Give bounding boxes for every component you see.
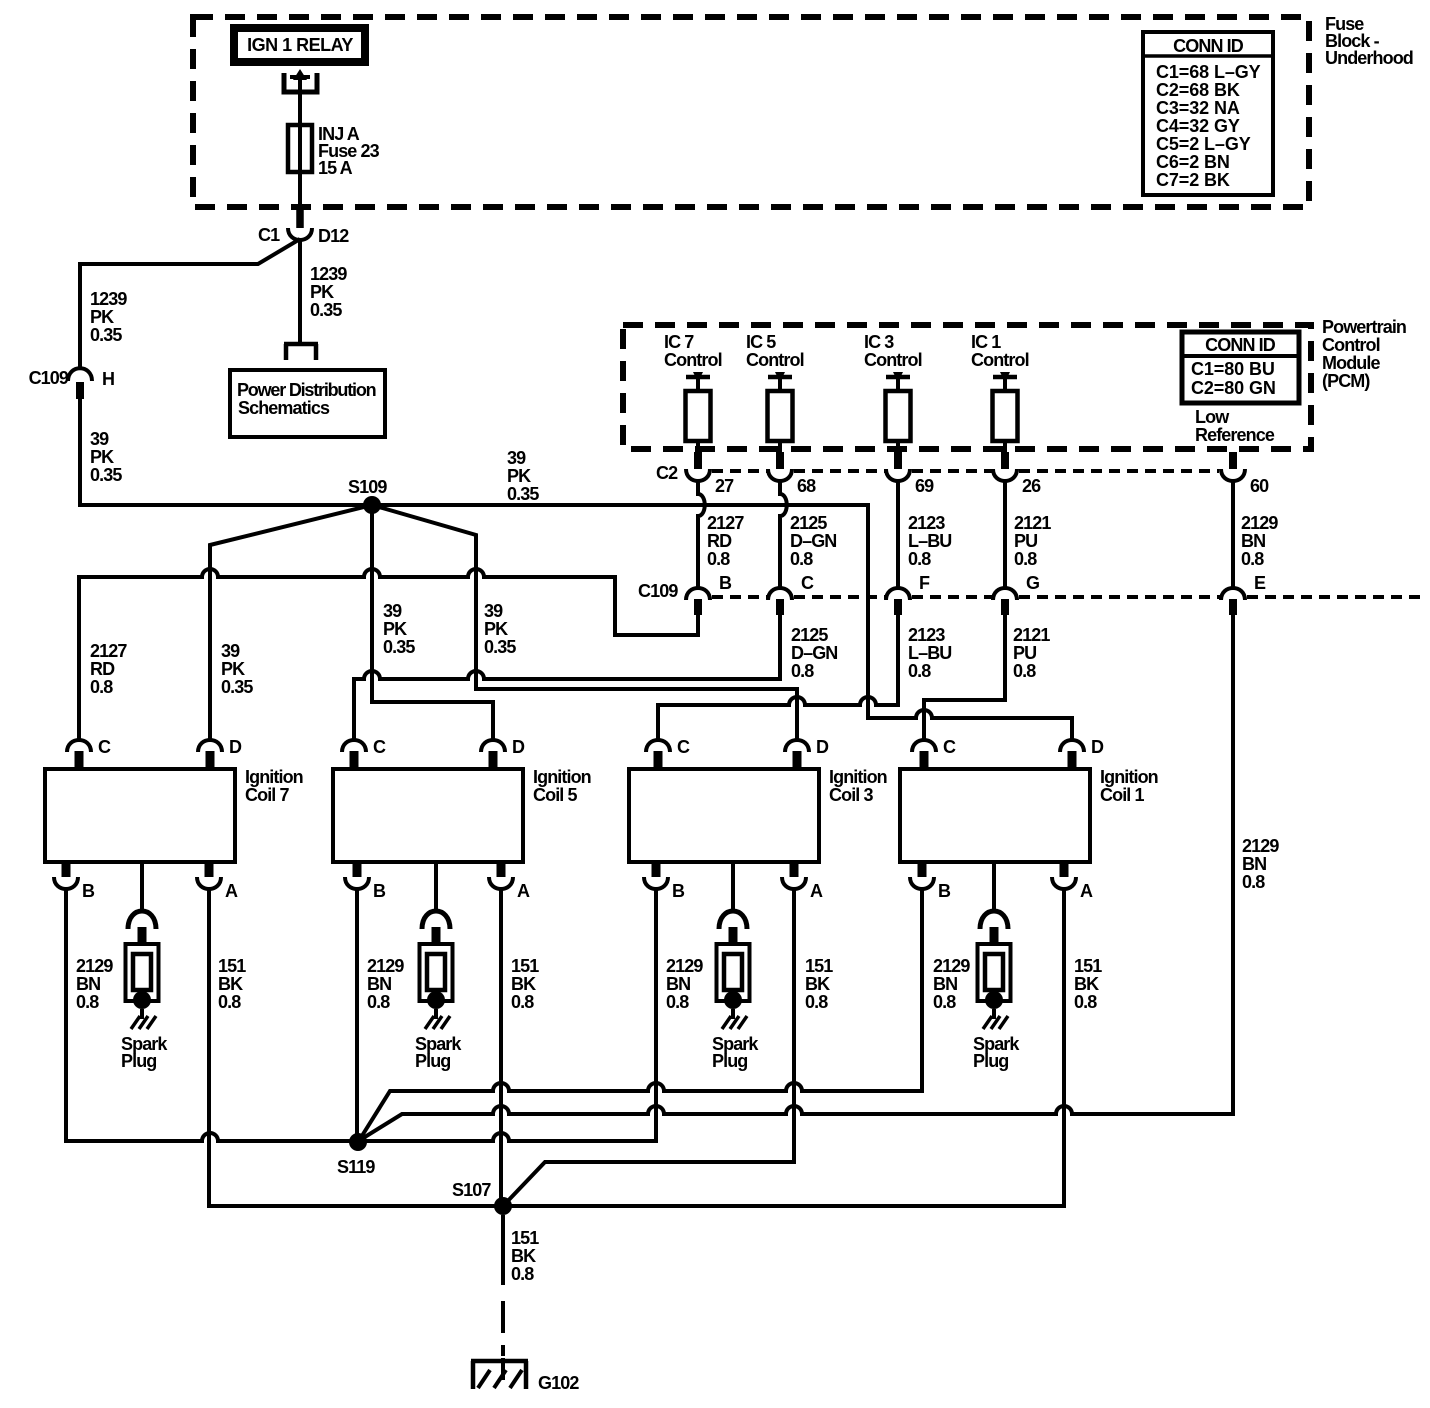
svg-text:B: B (672, 881, 685, 901)
svg-text:151: 151 (511, 956, 539, 976)
svg-text:IGN 1 RELAY: IGN 1 RELAY (247, 35, 353, 55)
powertrain control module dashed box (623, 325, 1311, 449)
coil 7 pin A (197, 862, 238, 901)
connector C1 D12 (258, 208, 349, 246)
wire 39 PK S109 diagonal to coil 3 pin D (372, 505, 797, 740)
coil 7 pin D (198, 737, 242, 769)
svg-text:Ignition: Ignition (245, 767, 303, 787)
wire 2129 BN C2-60 to C109-E (1233, 480, 1278, 589)
svg-text:PK: PK (310, 282, 334, 302)
svg-text:PU: PU (1014, 531, 1037, 551)
svg-text:39: 39 (484, 601, 503, 621)
svg-text:Module: Module (1322, 353, 1380, 373)
svg-text:A: A (517, 881, 530, 901)
connector C109 pin B (686, 573, 732, 615)
coil 5 pin B (345, 862, 386, 901)
svg-text:2129: 2129 (1241, 513, 1278, 533)
svg-text:Coil 1: Coil 1 (1100, 785, 1144, 805)
svg-text:0.8: 0.8 (90, 677, 113, 697)
svg-text:Control: Control (864, 350, 922, 370)
spark plug of coil 1 (973, 862, 1020, 1071)
svg-text:BN: BN (933, 974, 957, 994)
svg-text:S107: S107 (452, 1180, 491, 1200)
svg-text:PK: PK (383, 619, 407, 639)
svg-text:BN: BN (1241, 531, 1265, 551)
svg-text:RD: RD (90, 659, 115, 679)
svg-text:BK: BK (218, 974, 243, 994)
svg-text:2121: 2121 (1014, 513, 1051, 533)
svg-text:0.8: 0.8 (1013, 661, 1036, 681)
wire 2129 BN coil 1 pin B to S119 (360, 887, 922, 1139)
svg-text:0.35: 0.35 (90, 325, 122, 345)
svg-text:Coil 5: Coil 5 (533, 785, 577, 805)
conn id table fuse block (1143, 32, 1273, 195)
connector C109 pin H (29, 368, 115, 399)
svg-text:1239: 1239 (310, 264, 347, 284)
wire fuse to connector C1 (298, 172, 302, 209)
svg-text:CONN ID: CONN ID (1173, 36, 1244, 56)
svg-text:60: 60 (1250, 476, 1269, 496)
svg-text:2129: 2129 (1242, 836, 1279, 856)
svg-text:0.8: 0.8 (367, 992, 390, 1012)
svg-text:15 A: 15 A (318, 158, 353, 178)
svg-text:G102: G102 (538, 1373, 579, 1393)
svg-text:C: C (801, 573, 814, 593)
svg-text:0.35: 0.35 (507, 484, 539, 504)
svg-text:Reference: Reference (1195, 425, 1275, 445)
svg-text:A: A (225, 881, 238, 901)
svg-text:D: D (512, 737, 525, 757)
label Powertrain Control Module (PCM) (1322, 317, 1406, 391)
svg-text:0.8: 0.8 (790, 549, 813, 569)
wire 39 PK S109 right to coil 1 pin D (372, 505, 1072, 740)
splice S119 (337, 1133, 375, 1177)
svg-text:Schematics: Schematics (238, 398, 330, 418)
coil 5 pin D (481, 737, 525, 769)
svg-text:2125: 2125 (791, 625, 828, 645)
svg-text:B: B (938, 881, 951, 901)
svg-text:BN: BN (76, 974, 100, 994)
svg-text:C: C (373, 737, 386, 757)
wire 1239 PK C1 to power distribution (300, 239, 347, 344)
svg-text:Underhood: Underhood (1325, 48, 1413, 68)
svg-text:PK: PK (484, 619, 508, 639)
svg-text:BK: BK (511, 974, 536, 994)
spark plug of coil 7 (121, 862, 168, 1071)
connector C2 pin 69 (886, 452, 934, 496)
conn id table PCM (1182, 332, 1299, 403)
svg-text:2125: 2125 (790, 513, 827, 533)
wire 2123 L-BU C109-F to coil 3 pin C (658, 615, 951, 740)
svg-text:0.35: 0.35 (90, 465, 122, 485)
connector C2 pin 68 (768, 452, 816, 496)
svg-text:BK: BK (1074, 974, 1099, 994)
wire 39 PK S109 down to coil 5 pin D (372, 505, 493, 740)
label C2 (656, 463, 678, 483)
coil 3 pin C (646, 737, 690, 769)
svg-text:151: 151 (1074, 956, 1102, 976)
svg-text:151: 151 (218, 956, 246, 976)
coil 7 pin C (67, 737, 111, 769)
connector bracket below relay with up arrow (284, 69, 317, 92)
svg-text:Coil 7: Coil 7 (245, 785, 289, 805)
svg-text:D12: D12 (318, 226, 349, 246)
svg-text:Plug: Plug (973, 1051, 1008, 1071)
splice S107 (452, 1180, 512, 1215)
wire 2127 RD C2-27 to C109-B (698, 480, 744, 589)
fuse block underhood dashed box (193, 17, 1309, 207)
svg-text:C7=2 BK: C7=2 BK (1156, 170, 1230, 190)
svg-text:0.8: 0.8 (666, 992, 689, 1012)
driver IC1 control output inside PCM (971, 332, 1029, 452)
svg-text:0.8: 0.8 (805, 992, 828, 1012)
svg-text:2127: 2127 (707, 513, 744, 533)
svg-text:C: C (943, 737, 956, 757)
connector row C2 dashed line (712, 469, 1219, 473)
svg-text:0.8: 0.8 (1242, 872, 1265, 892)
svg-text:0.35: 0.35 (484, 637, 516, 657)
svg-text:0.8: 0.8 (1074, 992, 1097, 1012)
svg-text:CONN ID: CONN ID (1205, 335, 1276, 355)
svg-text:0.8: 0.8 (511, 992, 534, 1012)
svg-text:0.8: 0.8 (76, 992, 99, 1012)
svg-text:D–GN: D–GN (790, 531, 836, 551)
svg-text:0.35: 0.35 (383, 637, 415, 657)
svg-text:B: B (373, 881, 386, 901)
connector C109 pin F (886, 573, 930, 615)
wire 2123 L-BU C2-69 to C109-F (898, 480, 951, 589)
wire 2125 D-GN C2-68 to C109-C (780, 480, 836, 589)
coil ground and low-reference wire labels (76, 956, 1102, 1012)
connector C2 pin 27 (686, 452, 734, 496)
wire 2129 BN coil 5 pin B to S119 (355, 887, 359, 1142)
svg-text:D: D (229, 737, 242, 757)
svg-text:PK: PK (90, 307, 114, 327)
svg-text:2129: 2129 (666, 956, 703, 976)
svg-text:A: A (810, 881, 823, 901)
svg-text:C2=80 GN: C2=80 GN (1191, 378, 1276, 398)
driver IC5 control output inside PCM (746, 332, 804, 452)
svg-text:C109: C109 (29, 368, 69, 388)
svg-text:Powertrain: Powertrain (1322, 317, 1406, 337)
svg-text:C6=2 BN: C6=2 BN (1156, 152, 1230, 172)
svg-text:PU: PU (1013, 643, 1036, 663)
svg-text:0.8: 0.8 (933, 992, 956, 1012)
svg-text:0.35: 0.35 (310, 300, 342, 320)
svg-text:0.8: 0.8 (511, 1264, 534, 1284)
svg-text:BK: BK (805, 974, 830, 994)
svg-text:IC 5: IC 5 (746, 332, 776, 352)
svg-text:39: 39 (90, 429, 109, 449)
svg-text:S109: S109 (348, 477, 387, 497)
svg-text:27: 27 (715, 476, 734, 496)
svg-text:0.8: 0.8 (1241, 549, 1264, 569)
svg-text:Plug: Plug (712, 1051, 747, 1071)
coil 7 pin B (54, 862, 95, 901)
svg-text:IC 1: IC 1 (971, 332, 1001, 352)
svg-text:0.35: 0.35 (221, 677, 253, 697)
relay K1 IGN 1 RELAY (234, 28, 365, 62)
splice S109 (348, 477, 387, 514)
svg-text:C109: C109 (638, 581, 678, 601)
svg-text:Plug: Plug (121, 1051, 156, 1071)
svg-text:Control: Control (971, 350, 1029, 370)
svg-text:2123: 2123 (908, 513, 945, 533)
wire 39 PK S109 diagonal to coil 7 pin D (210, 505, 372, 740)
wire 2121 PU C109-G to coil 1 pin C (924, 615, 1050, 740)
svg-text:0.8: 0.8 (707, 549, 730, 569)
coil 1 pin C (912, 737, 956, 769)
svg-text:68: 68 (797, 476, 816, 496)
label Low Reference (1195, 407, 1275, 445)
ignition coil 7 box (45, 767, 303, 862)
coil 3 pin B (644, 862, 685, 901)
coil 1 pin A (1052, 862, 1093, 901)
svg-text:C1=80 BU: C1=80 BU (1191, 359, 1275, 379)
svg-text:L–BU: L–BU (908, 531, 951, 551)
fuse F23 INJ A 15 A (288, 124, 380, 178)
svg-text:PK: PK (507, 466, 531, 486)
svg-text:C2: C2 (656, 463, 678, 483)
svg-text:Control: Control (1322, 335, 1380, 355)
svg-text:Coil 3: Coil 3 (829, 785, 873, 805)
wire relay to fuse (298, 78, 302, 126)
svg-text:39: 39 (507, 448, 526, 468)
coil 3 pin D (785, 737, 829, 769)
svg-text:C4=32 GY: C4=32 GY (1156, 116, 1240, 136)
svg-text:PK: PK (90, 447, 114, 467)
svg-text:B: B (719, 573, 732, 593)
label C109 (638, 581, 678, 601)
svg-text:Plug: Plug (415, 1051, 450, 1071)
svg-text:F: F (919, 573, 930, 593)
svg-text:C: C (98, 737, 111, 757)
connector C2 pin 26 (993, 452, 1041, 496)
svg-text:39: 39 (221, 641, 240, 661)
svg-text:BN: BN (666, 974, 690, 994)
svg-text:151: 151 (805, 956, 833, 976)
svg-text:BN: BN (367, 974, 391, 994)
spark plug of coil 5 (415, 862, 462, 1071)
ignition coil 3 box (629, 767, 887, 862)
ignition coil 5 box (333, 767, 591, 862)
driver IC7 control output inside PCM (664, 332, 722, 452)
svg-text:0.8: 0.8 (791, 661, 814, 681)
wire 2121 PU C2-26 to C109-G (1005, 480, 1051, 589)
svg-text:Control: Control (664, 350, 722, 370)
svg-text:IC 7: IC 7 (664, 332, 694, 352)
wire 2129 BN coil 7 pin B through S119 to coil 3 pin B (66, 887, 656, 1141)
svg-text:E: E (1254, 573, 1266, 593)
svg-text:Power Distribution: Power Distribution (237, 380, 376, 400)
svg-text:C: C (677, 737, 690, 757)
svg-text:B: B (82, 881, 95, 901)
svg-text:IC 3: IC 3 (864, 332, 894, 352)
svg-text:D: D (816, 737, 829, 757)
svg-text:2127: 2127 (90, 641, 127, 661)
label Fuse Block - Underhood (1325, 14, 1413, 68)
wire 151 BK coil 3 pin A to S107 (503, 887, 794, 1206)
svg-text:BK: BK (511, 1246, 536, 1266)
wire 1239 PK C1 to C109 H (80, 239, 300, 369)
svg-text:C3=32 NA: C3=32 NA (1156, 98, 1240, 118)
power distribution schematics box (230, 370, 385, 437)
svg-text:C1=68 L–GY: C1=68 L–GY (1156, 62, 1261, 82)
coil 3 pin A (782, 862, 823, 901)
wire 151 BK coil 5 pin A to S107 (499, 887, 503, 1206)
svg-text:D–GN: D–GN (791, 643, 837, 663)
off-page symbol above power distribution box (284, 344, 318, 360)
svg-text:1239: 1239 (90, 289, 127, 309)
svg-text:L–BU: L–BU (908, 643, 951, 663)
svg-text:151: 151 (511, 1228, 539, 1248)
svg-text:Control: Control (746, 350, 804, 370)
connector row C109 dashed line (712, 595, 1424, 599)
svg-text:RD: RD (707, 531, 732, 551)
ground G102 (471, 1361, 579, 1393)
svg-text:0.8: 0.8 (1014, 549, 1037, 569)
svg-text:Ignition: Ignition (533, 767, 591, 787)
coil 5 pin A (489, 862, 530, 901)
svg-text:69: 69 (915, 476, 934, 496)
svg-text:2129: 2129 (76, 956, 113, 976)
svg-text:G: G (1026, 573, 1039, 593)
svg-text:26: 26 (1022, 476, 1041, 496)
svg-text:C2=68 BK: C2=68 BK (1156, 80, 1240, 100)
svg-text:2129: 2129 (933, 956, 970, 976)
svg-text:S119: S119 (337, 1157, 375, 1177)
svg-text:C5=2 L–GY: C5=2 L–GY (1156, 134, 1251, 154)
coil 1 pin D (1060, 737, 1104, 769)
svg-text:A: A (1080, 881, 1093, 901)
svg-text:2121: 2121 (1013, 625, 1050, 645)
svg-text:D: D (1091, 737, 1104, 757)
wire 2125 D-GN C109-C to coil 5 pin C (354, 615, 837, 740)
wire 39 PK C109 H to splice S109 (80, 399, 372, 505)
svg-text:BN: BN (1242, 854, 1266, 874)
svg-text:PK: PK (221, 659, 245, 679)
connector C2 pin 60 (1221, 452, 1269, 496)
wire 2127 RD C109-B to coil 7 pin C (79, 569, 698, 740)
svg-text:0.8: 0.8 (908, 661, 931, 681)
svg-text:2123: 2123 (908, 625, 945, 645)
label 39 PK 0.35 on S109 right feed (507, 448, 539, 504)
svg-text:0.8: 0.8 (218, 992, 241, 1012)
svg-text:H: H (102, 369, 114, 389)
svg-text:0.8: 0.8 (908, 549, 931, 569)
svg-text:Ignition: Ignition (829, 767, 887, 787)
coil 1 pin B (910, 862, 951, 901)
wire 151 BK S107 to ground G102 (503, 1215, 539, 1380)
connector C109 pin G (993, 573, 1039, 615)
wire 151 BK coil 7 pin A through S107 to coil 1 pin A (209, 887, 1064, 1206)
svg-text:C1: C1 (258, 225, 280, 245)
driver IC3 control output inside PCM (864, 332, 922, 452)
coil 5 pin C (342, 737, 386, 769)
svg-text:Low: Low (1195, 407, 1230, 427)
svg-text:Ignition: Ignition (1100, 767, 1158, 787)
wire 2129 BN C109-E down to S119 (360, 615, 1279, 1140)
connector C109 pin C (768, 573, 814, 615)
svg-text:2129: 2129 (367, 956, 404, 976)
connector C109 pin E (1221, 573, 1266, 615)
ignition coil 1 box (900, 767, 1158, 862)
spark plug of coil 3 (712, 862, 759, 1071)
svg-text:(PCM): (PCM) (1322, 371, 1370, 391)
svg-text:39: 39 (383, 601, 402, 621)
